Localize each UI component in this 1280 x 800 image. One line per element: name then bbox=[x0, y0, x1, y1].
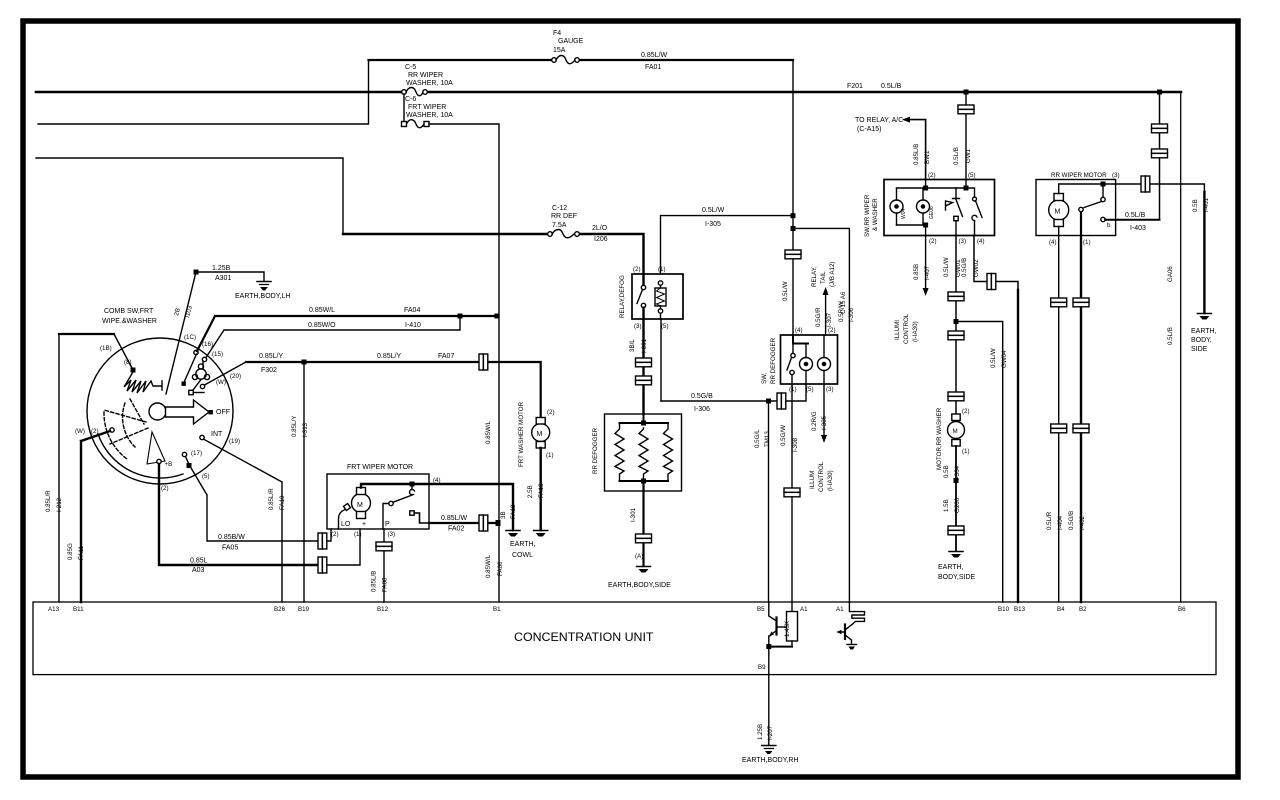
comb switch body circle bbox=[87, 338, 233, 484]
svg-text:I-410: I-410 bbox=[405, 322, 421, 329]
RELAY TAIL arrow bbox=[823, 287, 829, 295]
svg-text:TAIL: TAIL bbox=[820, 271, 827, 284]
wire washer to 0.85L/Y bbox=[205, 362, 247, 385]
node junction x=966 on bus1 bbox=[964, 90, 969, 95]
svg-text:2.5B: 2.5B bbox=[527, 485, 534, 498]
svg-text:0.85L/R: 0.85L/R bbox=[268, 488, 275, 510]
terminal washer (2C) bbox=[200, 384, 204, 388]
svg-text:0.5G/L: 0.5G/L bbox=[754, 429, 761, 448]
svg-text:EARTH,: EARTH, bbox=[510, 541, 536, 548]
switch frt wiper park bbox=[383, 484, 429, 529]
wire 0.85L/W corner down x=793 bbox=[792, 60, 794, 335]
motor M frt washer bbox=[532, 409, 555, 459]
svg-text:I-301: I-301 bbox=[641, 338, 648, 353]
svg-text:EARTH,: EARTH, bbox=[938, 564, 964, 571]
svg-text:INT: INT bbox=[211, 431, 223, 438]
svg-text:CONTROL: CONTROL bbox=[818, 461, 825, 492]
ground rr wiper park EARTH,BODY,SIDE bbox=[1191, 314, 1217, 354]
washer fan icon bbox=[192, 364, 209, 390]
svg-text:GE06: GE06 bbox=[929, 206, 935, 219]
svg-text:I-304: I-304 bbox=[954, 465, 961, 480]
wire motor top to ground bus bbox=[361, 484, 513, 530]
wire bus 0.85L/W y=60 bbox=[369, 59, 794, 61]
wire (1B) to A13 bbox=[58, 334, 60, 602]
svg-text:0.85B/W: 0.85B/W bbox=[218, 534, 245, 541]
svg-text:MOTOR,RR WASHER: MOTOR,RR WASHER bbox=[936, 407, 943, 470]
svg-text:0.5L/R: 0.5L/R bbox=[1046, 511, 1053, 530]
svg-text:A1: A1 bbox=[800, 606, 808, 613]
svg-text:A1: A1 bbox=[836, 606, 844, 613]
svg-text:0.2R/G: 0.2R/G bbox=[811, 411, 818, 431]
svg-text:0.5L/B: 0.5L/B bbox=[881, 83, 902, 90]
svg-text:FA05: FA05 bbox=[222, 545, 238, 552]
node junction x=412 bbox=[410, 482, 415, 487]
connector on 0.85L/Y bbox=[479, 354, 488, 370]
svg-text:EARTH,BODY,LH: EARTH,BODY,LH bbox=[235, 293, 290, 300]
svg-text:GW02: GW02 bbox=[973, 259, 980, 277]
wire bus2 y=124 to corner up bbox=[38, 60, 369, 124]
wire branch to A1 x=849.4 bbox=[793, 228, 849, 602]
svg-text:0.85L/Y: 0.85L/Y bbox=[377, 353, 401, 360]
svg-text:(3): (3) bbox=[826, 386, 834, 393]
svg-text:0.5L/W: 0.5L/W bbox=[990, 348, 997, 368]
svg-text:0.85G: 0.85G bbox=[67, 543, 74, 560]
wire 0.5L/B to sw rr wiper bbox=[965, 92, 967, 180]
LO brush curve bbox=[339, 509, 348, 529]
node junction y=215.6 bbox=[791, 213, 796, 218]
svg-text:FA13: FA13 bbox=[538, 483, 545, 498]
svg-text:I-401: I-401 bbox=[1203, 197, 1210, 212]
svg-text:GW04: GW04 bbox=[1001, 350, 1008, 368]
terminal OFF bbox=[209, 410, 213, 414]
svg-text:B9: B9 bbox=[758, 664, 766, 671]
interior bus top bbox=[897, 180, 975, 189]
lamp bottom bus bbox=[897, 225, 926, 236]
wire defogger to ground bbox=[642, 481, 644, 534]
svg-text:(1): (1) bbox=[546, 452, 554, 459]
wire 0.5L/W to relay coil bbox=[661, 216, 794, 274]
wire 2L/O y=234 to relay defog bbox=[343, 234, 644, 285]
svg-text:OFF: OFF bbox=[216, 409, 230, 416]
svg-text:0.85W/L: 0.85W/L bbox=[485, 554, 492, 578]
defogger indicator lamp bbox=[800, 344, 813, 385]
svg-text:FA08: FA08 bbox=[382, 577, 389, 592]
svg-text:FRT WASHER MOTOR: FRT WASHER MOTOR bbox=[518, 401, 525, 467]
svg-text:C-6: C-6 bbox=[405, 96, 416, 103]
svg-text:0.85W/L: 0.85W/L bbox=[485, 420, 492, 444]
svg-text:(2): (2) bbox=[929, 238, 937, 245]
wire 0.85L/Y I-313 to B19 bbox=[303, 362, 305, 602]
svg-text:1.45K: 1.45K bbox=[784, 620, 791, 637]
svg-text:M: M bbox=[357, 502, 363, 509]
svg-text:FA01: FA01 bbox=[645, 64, 661, 71]
svg-text:(2): (2) bbox=[547, 409, 555, 416]
SW RR DEFOGGER box bbox=[781, 335, 838, 384]
svg-text:I-306: I-306 bbox=[848, 307, 855, 322]
svg-text:A13: A13 bbox=[48, 606, 60, 613]
motor M rr washer bbox=[948, 408, 970, 455]
wire washer sw to motor bbox=[955, 236, 957, 416]
fuse C-5 RR WIPER WASHER 10A bbox=[402, 64, 453, 96]
SW RR WIPER WASHER box bbox=[884, 180, 995, 236]
svg-text:(2): (2) bbox=[828, 327, 836, 334]
svg-text:(3): (3) bbox=[1112, 172, 1120, 179]
wire illum lamp to ILLUM CONTROL arrow bbox=[823, 385, 825, 436]
svg-text:(2): (2) bbox=[331, 531, 339, 538]
svg-text:TM13: TM13 bbox=[764, 431, 771, 447]
wire LO to FRT wiper bbox=[186, 457, 319, 542]
wire to relay a/c arrow bbox=[902, 117, 910, 123]
svg-text:B11: B11 bbox=[73, 606, 84, 613]
svg-text:(1C): (1C) bbox=[184, 334, 196, 341]
resistor comb switch intermittent bbox=[59, 334, 162, 393]
svg-text:SW,RR WIPER: SW,RR WIPER bbox=[864, 194, 871, 237]
svg-text:0.5G/W: 0.5G/W bbox=[780, 425, 787, 446]
svg-text:I-305: I-305 bbox=[705, 221, 721, 228]
illumination lamp 1 bbox=[890, 188, 907, 225]
svg-text:A03: A03 bbox=[192, 567, 205, 574]
svg-text:0.5G/R: 0.5G/R bbox=[815, 307, 822, 327]
svg-text:0.5G/B: 0.5G/B bbox=[691, 393, 713, 400]
svg-text:(4): (4) bbox=[795, 327, 803, 334]
svg-text:I-308: I-308 bbox=[792, 437, 799, 452]
dashed sector plates bbox=[104, 399, 148, 459]
svg-text:(1): (1) bbox=[354, 531, 362, 538]
terminal (1C) bbox=[194, 350, 198, 354]
wire relay coil to 0.5G/B bbox=[660, 313, 663, 401]
relay switch contacts bbox=[637, 285, 646, 307]
svg-text:RR DEFOGGER: RR DEFOGGER bbox=[592, 427, 599, 474]
RELAY DEFOG box bbox=[632, 274, 683, 319]
svg-text:FA06: FA06 bbox=[497, 561, 504, 576]
svg-text:A301: A301 bbox=[215, 275, 231, 282]
terminal INT bbox=[200, 435, 204, 439]
svg-text:B26: B26 bbox=[274, 606, 286, 613]
svg-text:(I-IA30): (I-IA30) bbox=[827, 470, 834, 491]
svg-text:(C-A15): (C-A15) bbox=[857, 126, 882, 133]
washer switch contact bbox=[953, 188, 963, 236]
defogger top bus bbox=[620, 414, 669, 423]
svg-text:SW,: SW, bbox=[761, 372, 768, 384]
svg-text:B13: B13 bbox=[1014, 606, 1026, 613]
svg-text:2L/O: 2L/O bbox=[592, 225, 608, 232]
mechanical link flag bbox=[946, 201, 953, 210]
wire INT to B26 bbox=[204, 439, 282, 602]
svg-text:(1): (1) bbox=[962, 448, 970, 455]
wire drop fuse C-5 to C-6 bbox=[403, 94, 405, 122]
connector on y=523 bbox=[479, 515, 488, 531]
illumination lamp 2 bbox=[917, 188, 936, 225]
fuse F4 GAUGE 15A bbox=[552, 30, 584, 64]
svg-text:(3): (3) bbox=[388, 531, 396, 538]
svg-text:0.85L/Y: 0.85L/Y bbox=[291, 416, 298, 437]
node junction washer branch bbox=[954, 319, 959, 324]
svg-text:F302: F302 bbox=[261, 367, 277, 374]
svg-text:0.5L/B: 0.5L/B bbox=[1167, 327, 1174, 345]
svg-text:+B: +B bbox=[165, 461, 173, 468]
node junction x=498 y=523 bbox=[496, 520, 501, 526]
svg-text:C-15 A6: C-15 A6 bbox=[840, 291, 847, 314]
transistor Q2 bbox=[837, 602, 865, 644]
svg-text:I-307: I-307 bbox=[826, 312, 833, 327]
svg-text:(8): (8) bbox=[124, 359, 132, 366]
defogger bottom bus bbox=[620, 480, 669, 482]
svg-text:C-12: C-12 bbox=[552, 205, 567, 212]
wire P to B12 bbox=[383, 529, 385, 602]
svg-text:RR DEF: RR DEF bbox=[551, 213, 577, 220]
svg-text:ILLUM: ILLUM bbox=[809, 471, 816, 489]
wire C-6 output to vertical x=499 bbox=[429, 124, 499, 316]
svg-text:0.85L/W: 0.85L/W bbox=[641, 52, 667, 59]
svg-text:LO: LO bbox=[341, 521, 351, 528]
svg-text:EARTH,BODY,SIDE: EARTH,BODY,SIDE bbox=[608, 582, 671, 589]
motor M rr wiper bbox=[1049, 194, 1069, 227]
connector on x=793 bbox=[785, 250, 801, 259]
svg-text:0.85L/R: 0.85L/R bbox=[45, 490, 52, 512]
svg-text:0.5G/B: 0.5G/B bbox=[1068, 511, 1075, 530]
svg-text:F4: F4 bbox=[553, 30, 561, 37]
svg-text:WASHER, 10A: WASHER, 10A bbox=[406, 80, 453, 87]
svg-text:(2): (2) bbox=[962, 408, 970, 415]
wire rr wiper motor minus to B4 bbox=[1058, 227, 1060, 603]
svg-text:(17): (17) bbox=[191, 450, 202, 457]
svg-text:0.5L/W: 0.5L/W bbox=[782, 281, 789, 301]
svg-text:COMB SW,FRT: COMB SW,FRT bbox=[104, 308, 154, 315]
defogger switch bbox=[787, 335, 808, 385]
svg-text:(19): (19) bbox=[229, 438, 240, 445]
svg-text:FA12: FA12 bbox=[510, 504, 517, 519]
svg-text:0.85L/B: 0.85L/B bbox=[913, 144, 920, 165]
wire to B5 bbox=[768, 401, 770, 602]
svg-text:+: + bbox=[362, 521, 366, 528]
svg-text:EARTH,: EARTH, bbox=[1191, 328, 1217, 335]
svg-text:ILLUMI: ILLUMI bbox=[894, 320, 901, 340]
svg-text:CONCENTRATION UNIT: CONCENTRATION UNIT bbox=[514, 630, 654, 644]
connector on y=541 bbox=[318, 533, 327, 549]
svg-text:RR DEFOGGER: RR DEFOGGER bbox=[770, 337, 777, 384]
svg-text:B1: B1 bbox=[493, 606, 501, 613]
svg-text:0.85L/Y: 0.85L/Y bbox=[259, 353, 283, 360]
svg-text:B6: B6 bbox=[1178, 606, 1186, 613]
svg-text:I-212: I-212 bbox=[56, 497, 63, 512]
resistor R1 1.45K bbox=[784, 602, 798, 647]
wire to B11 bbox=[81, 431, 110, 602]
svg-text:B2: B2 bbox=[1079, 606, 1087, 613]
wire 0.85L/W S-contact to B1 line bbox=[429, 522, 498, 524]
svg-text:BODY,SIDE: BODY,SIDE bbox=[938, 574, 976, 581]
wire rr wiper common to B2 bbox=[1080, 236, 1082, 603]
svg-text:0.5L/B: 0.5L/B bbox=[953, 147, 960, 165]
svg-text:GA06: GA06 bbox=[1167, 266, 1174, 282]
svg-text:0.85L: 0.85L bbox=[190, 558, 208, 565]
svg-text:(W): (W) bbox=[75, 428, 85, 435]
svg-text:(2): (2) bbox=[161, 485, 169, 492]
svg-text:B12: B12 bbox=[377, 606, 389, 613]
ground EARTH COWL 2 bbox=[510, 531, 548, 560]
transistor Q1 bbox=[769, 602, 787, 647]
svg-text:(W): (W) bbox=[216, 379, 226, 386]
svg-text:(3): (3) bbox=[634, 323, 642, 330]
svg-text:SIDE: SIDE bbox=[1191, 346, 1208, 353]
wire 0.85L/Y y=362 bbox=[246, 361, 479, 363]
svg-text:& WASHER: & WASHER bbox=[872, 198, 879, 231]
wire B9 to earth body RH bbox=[768, 675, 770, 745]
svg-text:(2): (2) bbox=[91, 428, 99, 435]
svg-text:FA10: FA10 bbox=[279, 495, 286, 510]
wire branch to B10 bbox=[956, 322, 1003, 603]
wire +B to FRT wiper + bbox=[159, 464, 318, 565]
svg-text:0.5L/W: 0.5L/W bbox=[943, 257, 950, 277]
svg-text:RR WIPER: RR WIPER bbox=[408, 72, 443, 79]
svg-text:BODY,: BODY, bbox=[1191, 337, 1212, 344]
connector below defogger bbox=[636, 534, 652, 543]
svg-text:7.5A: 7.5A bbox=[552, 222, 567, 229]
svg-text:(5): (5) bbox=[806, 386, 814, 393]
svg-text:I-407: I-407 bbox=[924, 265, 931, 280]
RR WIPER MOTOR box bbox=[1036, 180, 1116, 236]
svg-text:GAUGE: GAUGE bbox=[558, 38, 584, 45]
defogger illumination lamp bbox=[818, 335, 831, 385]
svg-text:0.5L/W: 0.5L/W bbox=[702, 207, 725, 214]
svg-text:0.5B: 0.5B bbox=[1192, 199, 1199, 212]
wire motor top to park ground bbox=[1059, 184, 1116, 194]
svg-text:0.85W/O: 0.85W/O bbox=[308, 322, 336, 329]
svg-text:RELAY,DEFOG: RELAY,DEFOG bbox=[619, 275, 626, 318]
ground EARTH,BODY,SIDE defogger bbox=[608, 567, 671, 590]
svg-text:(3): (3) bbox=[959, 238, 967, 245]
svg-text:(1B): (1B) bbox=[100, 345, 112, 352]
svg-text:(2): (2) bbox=[633, 266, 641, 273]
wire bus1 0.5L/B y=92 bbox=[36, 91, 1181, 94]
svg-text:0.5B: 0.5B bbox=[943, 465, 950, 478]
svg-text:EARTH,BODY,RH: EARTH,BODY,RH bbox=[742, 757, 799, 764]
terminal (16) bbox=[202, 357, 206, 361]
svg-text:WASHER, 10A: WASHER, 10A bbox=[406, 112, 453, 119]
node junction y=228.4 bbox=[791, 226, 796, 231]
wire 0.85W/L y=316 bbox=[197, 316, 497, 351]
svg-text:I-402: I-402 bbox=[1079, 515, 1086, 530]
svg-text:(4): (4) bbox=[977, 238, 985, 245]
terminal (W)(2) left bbox=[110, 428, 114, 432]
svg-text:b: b bbox=[1107, 222, 1111, 229]
svg-text:CONTROL: CONTROL bbox=[903, 313, 910, 344]
svg-text:I-313: I-313 bbox=[302, 422, 309, 437]
wire 0.85W/O y=330 bbox=[206, 316, 460, 358]
svg-text:(I-IA30): (I-IA30) bbox=[912, 321, 919, 342]
svg-text:B4: B4 bbox=[1057, 606, 1065, 613]
svg-text:W04: W04 bbox=[901, 209, 907, 220]
svg-text:FA07: FA07 bbox=[438, 353, 454, 360]
motor M frt wiper bbox=[352, 488, 371, 519]
solid arc detent bbox=[98, 434, 183, 478]
fuse C-6 FRT WIPER WASHER 10A bbox=[402, 96, 454, 128]
svg-text:1.25B: 1.25B bbox=[212, 265, 231, 272]
wire 1.25B ground lead bbox=[196, 272, 264, 281]
svg-text:COWL: COWL bbox=[512, 552, 533, 559]
comb switch knob arrow bbox=[166, 400, 210, 424]
svg-text:M: M bbox=[537, 431, 543, 438]
svg-text:TO RELAY, A/C: TO RELAY, A/C bbox=[855, 117, 903, 124]
wire x=499 to B1 bbox=[498, 316, 500, 602]
ground EARTH,BODY,LH bbox=[235, 282, 290, 301]
connector on y=565 bbox=[318, 557, 327, 573]
svg-text:I206: I206 bbox=[594, 236, 608, 243]
svg-text:0.85L/W: 0.85L/W bbox=[441, 515, 467, 522]
svg-text:1.25B: 1.25B bbox=[757, 724, 764, 740]
svg-text:GW1: GW1 bbox=[965, 148, 972, 163]
svg-text:C-5: C-5 bbox=[405, 64, 416, 71]
svg-text:I-306: I-306 bbox=[694, 406, 710, 413]
wire 0.5G/B y=401 bbox=[661, 385, 806, 402]
svg-text:RELAY,: RELAY, bbox=[811, 266, 818, 287]
fuse C-12 RR DEF 7.5A bbox=[548, 205, 580, 238]
svg-text:I-207: I-207 bbox=[767, 725, 774, 740]
connector on y=401 bbox=[777, 393, 786, 409]
svg-text:(20): (20) bbox=[230, 373, 241, 380]
FRT WIPER MOTOR box bbox=[327, 474, 429, 529]
svg-text:RR WIPER MOTOR: RR WIPER MOTOR bbox=[1051, 172, 1107, 179]
svg-text:FA04: FA04 bbox=[404, 307, 420, 314]
wire wiper arm diagonal bbox=[166, 272, 196, 394]
svg-text:(16): (16) bbox=[202, 341, 213, 348]
svg-text:(2): (2) bbox=[928, 172, 936, 179]
terminal (9) bottom bbox=[157, 459, 161, 463]
ground Q2 emitter bbox=[847, 645, 857, 650]
svg-text:I-305: I-305 bbox=[821, 415, 828, 430]
wiper switch contact bbox=[972, 188, 982, 236]
svg-text:(5): (5) bbox=[202, 473, 210, 480]
svg-text:1.5B: 1.5B bbox=[943, 499, 950, 512]
comb switch hub bbox=[149, 403, 166, 420]
svg-text:(A): (A) bbox=[635, 553, 643, 560]
wire rr washer to ground bbox=[955, 446, 957, 551]
wire bus1 end to B6 bbox=[1180, 92, 1182, 602]
svg-text:(5): (5) bbox=[968, 172, 976, 179]
connectors relay to defogger bbox=[636, 358, 652, 367]
ground EARTH,BODY,RH bbox=[742, 746, 799, 765]
svg-text:B10: B10 bbox=[998, 606, 1010, 613]
svg-text:WIPE.&WASHER: WIPE.&WASHER bbox=[102, 318, 157, 325]
terminal (17) bbox=[182, 452, 186, 456]
svg-text:0.5L/B: 0.5L/B bbox=[1125, 212, 1146, 219]
node junctions on 0.85W/L bbox=[458, 314, 463, 319]
svg-text:(4): (4) bbox=[433, 477, 441, 484]
ground rr washer EARTH,BODY,SIDE bbox=[938, 552, 976, 582]
svg-text:0.85W/L: 0.85W/L bbox=[309, 307, 335, 314]
rr wiper switch bbox=[1079, 184, 1160, 236]
svg-text:(15): (15) bbox=[212, 351, 223, 358]
svg-text:3B: 3B bbox=[500, 511, 507, 519]
svg-text:FRT WIPER: FRT WIPER bbox=[408, 104, 446, 111]
svg-text:I-404: I-404 bbox=[1057, 515, 1064, 530]
svg-text:(4): (4) bbox=[1049, 239, 1057, 246]
svg-text:15A: 15A bbox=[553, 47, 566, 54]
svg-text:B5: B5 bbox=[757, 606, 765, 613]
ground EARTH COWL 1 bbox=[500, 504, 520, 537]
node junction wiper top bbox=[194, 270, 199, 275]
svg-text:BW1: BW1 bbox=[924, 150, 931, 164]
svg-text:M: M bbox=[953, 428, 958, 435]
svg-text:I-301: I-301 bbox=[630, 507, 637, 522]
wire lamps to illum control arrow bbox=[925, 236, 927, 289]
svg-text:FRT WIPER MOTOR: FRT WIPER MOTOR bbox=[347, 464, 413, 471]
node junction B5 branch bbox=[766, 399, 771, 404]
wire bus3 y=158 bbox=[36, 158, 343, 234]
svg-text:B19: B19 bbox=[298, 606, 310, 613]
node junction x=304 bbox=[302, 360, 307, 365]
svg-text:(1): (1) bbox=[789, 386, 797, 393]
svg-text:M: M bbox=[1055, 209, 1061, 216]
